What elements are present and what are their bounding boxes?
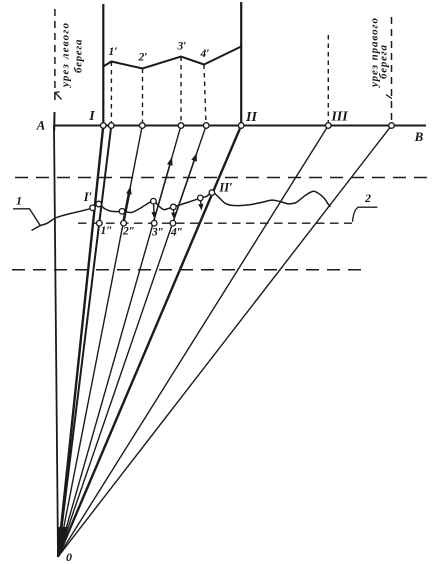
svg-text:I′: I′ — [83, 190, 92, 204]
svg-text:II′: II′ — [218, 181, 232, 195]
leader from label 1 to shoreline — [13, 209, 40, 226]
dashed drop line from 1' — [110, 62, 112, 126]
dashed drop line from 4' — [204, 65, 206, 126]
correction down-arrow at point 4 — [172, 209, 174, 213]
upper dashed water level line — [15, 177, 433, 179]
baseline AB — [54, 125, 426, 127]
svg-text:1″: 1″ — [100, 225, 112, 237]
ray O-A — [54, 126, 58, 557]
node 2 shoreline — [119, 209, 125, 215]
ray O-1 — [58, 126, 111, 557]
node II' shoreline — [209, 190, 215, 196]
svg-text:берега: берега — [378, 45, 390, 80]
ray O-3 — [58, 126, 181, 557]
ray O-2 — [58, 126, 142, 557]
lower dashed water level line — [12, 269, 363, 271]
leader tick to right bank line — [386, 95, 392, 99]
svg-text:I: I — [88, 109, 95, 124]
correction down-arrow near II' — [199, 199, 202, 204]
correction down-arrow at point 3 — [153, 204, 155, 213]
node 4 shoreline — [171, 204, 177, 210]
svg-text:2′: 2′ — [138, 52, 148, 64]
node II on AB — [238, 123, 244, 129]
node I on AB — [101, 123, 107, 129]
dashed plumb line of right bank edge — [391, 17, 393, 126]
ray O-4 — [58, 126, 206, 557]
ray O-right-bank — [58, 126, 392, 557]
svg-text:1′: 1′ — [109, 46, 118, 58]
svg-text:2″: 2″ — [122, 226, 135, 238]
svg-text:B: B — [414, 129, 424, 144]
svg-text:2: 2 — [364, 191, 371, 205]
svg-text:4′: 4′ — [200, 48, 210, 60]
node 4 on AB — [203, 123, 209, 129]
ray convergence wedge at O — [58, 527, 68, 558]
ray O-I — [58, 126, 103, 557]
tick at A — [53, 112, 55, 131]
svg-text:3″: 3″ — [151, 227, 164, 239]
node 4'' — [170, 220, 176, 226]
correction up-arrow on ray O-4 — [173, 161, 195, 223]
svg-text:A: A — [36, 118, 46, 133]
svg-text:4″: 4″ — [170, 227, 183, 239]
node 3'' — [151, 220, 157, 226]
correction up-arrow on ray O-2 — [123, 194, 129, 223]
correction up-arrow on ray O-3 — [153, 165, 170, 223]
leader tick to left bank line — [55, 92, 62, 100]
node III on AB — [326, 123, 332, 129]
node I' left — [90, 205, 96, 211]
leader from label 2 to middle dashed line — [353, 207, 378, 222]
dashed vertical above III — [327, 35, 329, 126]
zigzag traverse line 1'-4' — [103, 47, 241, 69]
dashed drop line from 2' — [142, 69, 144, 126]
svg-text:3′: 3′ — [177, 41, 187, 53]
node R on AB — [389, 123, 395, 129]
svg-text:III: III — [330, 110, 348, 125]
middle dashed line (projected shoreline) — [78, 222, 352, 224]
node 3 shoreline — [151, 198, 157, 204]
ray O-II — [58, 126, 241, 557]
ray O-III — [58, 126, 328, 557]
station line I (vertical) — [102, 4, 104, 126]
dashed plumb line of left bank edge — [54, 9, 56, 104]
node I' right — [96, 201, 102, 207]
node 1 on AB — [109, 123, 115, 129]
svg-text:1: 1 — [16, 193, 22, 207]
station line II (vertical) — [240, 2, 242, 126]
svg-text:II: II — [245, 110, 257, 125]
node 1'' — [97, 220, 103, 226]
wavy shoreline — [32, 191, 331, 230]
node 3 on AB — [178, 123, 184, 129]
svg-text:берега: берега — [73, 39, 85, 73]
dashed drop line from 3' — [180, 57, 182, 126]
svg-text:урез левого: урез левого — [60, 23, 72, 90]
svg-text:0: 0 — [66, 550, 72, 564]
node 2'' — [121, 220, 127, 226]
node shore point — [198, 195, 204, 201]
node 2 on AB — [140, 123, 146, 129]
